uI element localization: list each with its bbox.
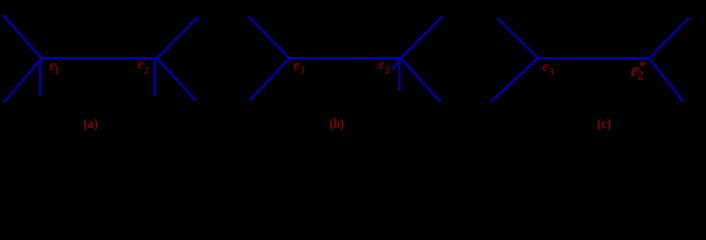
tree (b) internal edge e (290, 57, 402, 60)
tree (b) left leaf up-left (249, 17, 290, 59)
tree (c) right leaf down-right (649, 58, 683, 101)
svg-text:1: 1 (54, 62, 60, 77)
tree (a) left leaf up-left (3, 15, 42, 58)
tree (a) right leaf up-right (157, 17, 198, 58)
tree (a) left leaf down-left (4, 58, 42, 102)
svg-text:(a): (a) (83, 117, 98, 132)
tree (a) right leaf down-right (157, 58, 196, 101)
svg-text:2: 2 (385, 65, 390, 76)
svg-text:(c): (c) (597, 117, 611, 132)
tree (c) left leaf down-left (491, 58, 538, 101)
tree (b) right leaf up-right (401, 16, 443, 58)
tree (c) left leaf up-left (497, 18, 538, 59)
tree (a) pendant edge e1 (vertical) (39, 58, 41, 95)
svg-text:(b): (b) (330, 117, 345, 132)
tree (c) right leaf up-right (649, 18, 689, 59)
svg-text:3: 3 (549, 67, 555, 79)
tree (b) right leaf down-right (401, 58, 440, 101)
svg-text:2: 2 (637, 68, 644, 83)
tree (a) pendant edge e2 (vertical) (154, 58, 156, 95)
svg-text:3: 3 (300, 65, 305, 77)
tree (b) left leaf down-left (250, 58, 289, 99)
tree (c) internal edge e (538, 57, 649, 60)
tree (b) pendant stub down-left (393, 58, 402, 69)
tree (b) pendant edge vertical (398, 58, 400, 91)
svg-text:2: 2 (144, 65, 149, 76)
tree (a) internal edge e (42, 57, 158, 60)
